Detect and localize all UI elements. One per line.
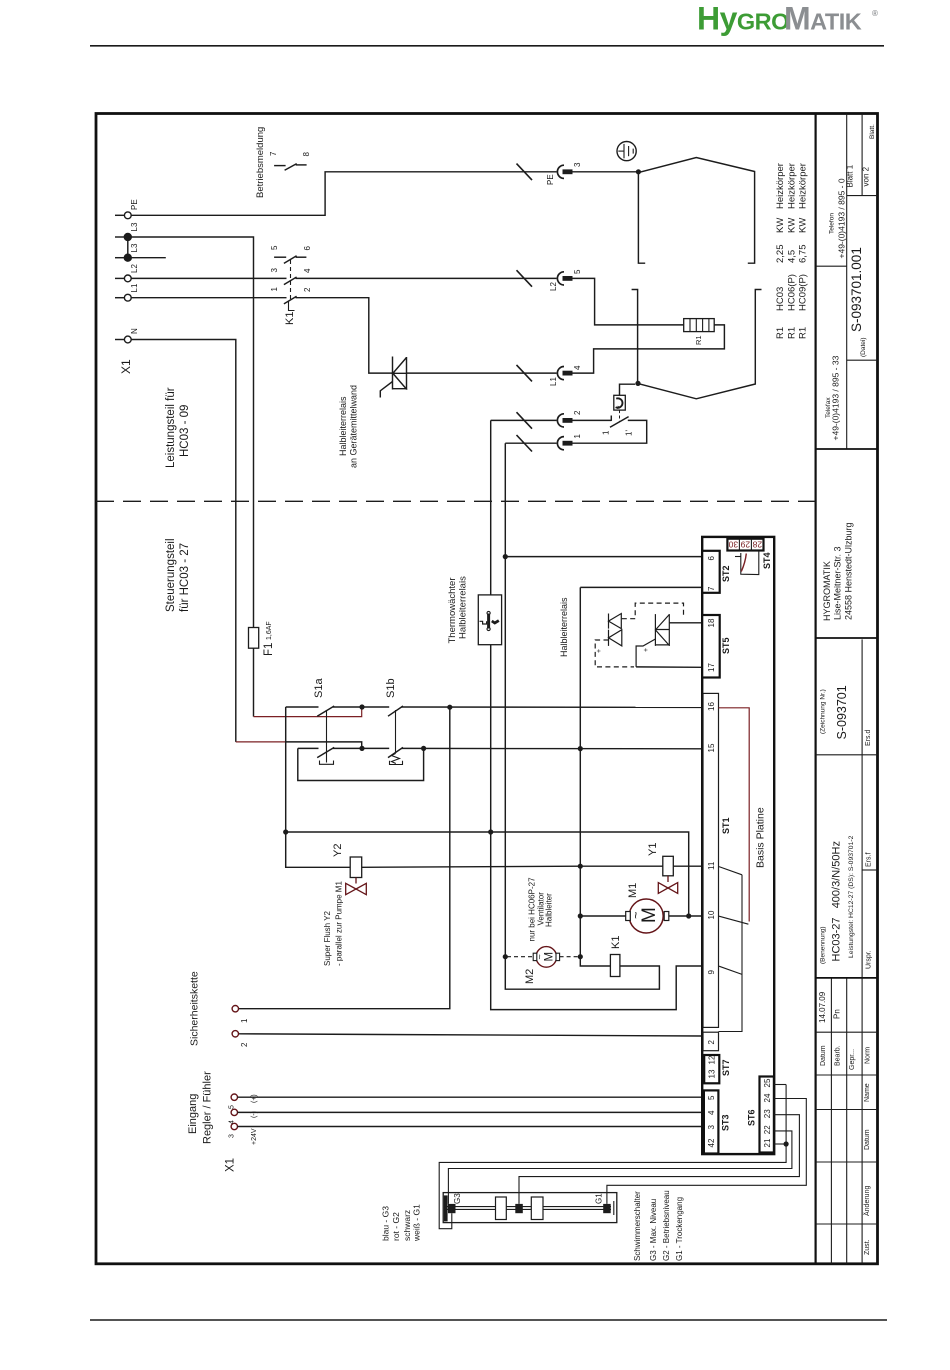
- magnet end bar: [444, 1195, 448, 1221]
- section separator dashed line: [96, 500, 816, 502]
- heating resistor R1: [684, 319, 715, 332]
- svg-text:13: 13: [708, 1069, 717, 1078]
- relay coil K1: [610, 955, 620, 977]
- float body 2: [531, 1197, 543, 1220]
- svg-text:(-): (-): [251, 1111, 258, 1118]
- row A wire: [286, 706, 319, 708]
- wire N red segment: [236, 741, 286, 743]
- terminal X1-PE: [115, 214, 125, 216]
- svg-text:1: 1: [573, 434, 582, 439]
- svg-text:3: 3: [707, 1125, 716, 1130]
- svg-text:Heizkörper: Heizkörper: [798, 163, 809, 209]
- svg-text:R1: R1: [694, 335, 703, 345]
- terminal X1-N: [115, 339, 125, 341]
- svg-text:3: 3: [229, 1134, 236, 1138]
- wire N down to control: [131, 340, 236, 742]
- svg-text:+: +: [596, 649, 603, 653]
- svg-text:KW: KW: [775, 218, 786, 233]
- svg-text:18: 18: [707, 618, 716, 627]
- svg-text:S-093701.001: S-093701.001: [849, 247, 864, 332]
- Thermowächter line: [490, 420, 492, 595]
- svg-text:8: 8: [302, 152, 311, 157]
- ST4 pulled plug: [735, 556, 741, 558]
- svg-text:R1: R1: [775, 327, 786, 339]
- Sicherheitskette wire 1: [239, 707, 450, 1009]
- switch S1a pole 1: [317, 706, 334, 716]
- bridge wire L3-L3: [127, 237, 129, 258]
- Eingang terminals: [231, 1094, 237, 1100]
- svg-text:von 2: von 2: [862, 166, 871, 186]
- svg-text:L1: L1: [130, 283, 139, 292]
- svg-text:ST7: ST7: [721, 1059, 731, 1076]
- float rod: [448, 1206, 612, 1208]
- S1b linkage with spring: [395, 710, 397, 754]
- contactor K1 pole 1/2: [284, 296, 297, 304]
- wire L1: [131, 297, 286, 299]
- svg-text:Halbleiterrelais: Halbleiterrelais: [458, 576, 469, 639]
- float wiring W1: [439, 1085, 786, 1229]
- node S1b out: [447, 705, 452, 710]
- S1a linkage: [326, 710, 328, 763]
- svg-text:5: 5: [707, 1095, 716, 1100]
- connector ST7: [704, 1055, 719, 1083]
- motor M1: [629, 899, 663, 933]
- svg-text:Leistungsteil für: Leistungsteil für: [165, 387, 177, 468]
- svg-text:S1b: S1b: [385, 678, 397, 698]
- PCB relay contact pin 10: [719, 916, 748, 924]
- svg-text:HC06(P): HC06(P): [787, 274, 798, 311]
- svg-text:Datum: Datum: [820, 1045, 827, 1066]
- svg-text:Thermowächter: Thermowächter: [447, 578, 458, 644]
- svg-text:(Zeichnung Nr.): (Zeichnung Nr.): [820, 689, 827, 734]
- svg-text:R1: R1: [798, 327, 809, 339]
- safety thermostat sensor: [614, 395, 626, 410]
- svg-text:F1: F1: [263, 643, 275, 656]
- svg-text:1: 1: [270, 287, 279, 292]
- svg-text:3: 3: [573, 162, 582, 167]
- S1a feed drop: [286, 707, 351, 867]
- contactor linkage: [290, 260, 292, 300]
- svg-text:L3: L3: [130, 222, 139, 231]
- plug L2: [557, 272, 564, 285]
- svg-text:Regler / Fühler: Regler / Fühler: [202, 1071, 214, 1144]
- svg-text:rot - G2: rot - G2: [391, 1212, 401, 1241]
- svg-text:G1: G1: [595, 1193, 604, 1204]
- title block row lines: [830, 978, 832, 1264]
- node: PE to cylinder: [636, 169, 641, 174]
- svg-text:KW: KW: [787, 218, 798, 233]
- terminal X1-L2: [115, 277, 125, 279]
- svg-text:HC03: HC03: [775, 287, 786, 311]
- connector ST5: [702, 615, 720, 678]
- svg-text:PE: PE: [546, 174, 555, 185]
- svg-text:6: 6: [303, 246, 312, 251]
- svg-text:14.07.09: 14.07.09: [818, 991, 827, 1023]
- svg-text:+49-(0)4193 / 895 - 0: +49-(0)4193 / 895 - 0: [837, 178, 847, 258]
- svg-text:an Gerätemittelwand: an Gerätemittelwand: [349, 385, 359, 468]
- svg-text:Norm: Norm: [865, 1047, 872, 1064]
- svg-text:7: 7: [707, 586, 716, 591]
- node ST2-6 branch: [503, 554, 508, 559]
- svg-text:weiß - G1: weiß - G1: [412, 1204, 422, 1242]
- svg-text:Name: Name: [864, 1083, 871, 1102]
- svg-text:HC03 - 09: HC03 - 09: [179, 405, 191, 457]
- wire to M1 side: [286, 832, 689, 914]
- svg-text:G3: G3: [453, 1193, 462, 1204]
- svg-text:L2: L2: [549, 282, 558, 291]
- svg-text:2: 2: [303, 287, 312, 292]
- SSR optocoupler symbol: [609, 614, 622, 646]
- svg-text:+: +: [643, 648, 650, 652]
- svg-text:4: 4: [229, 1120, 236, 1124]
- svg-text:M1: M1: [627, 883, 639, 898]
- svg-text:15: 15: [707, 743, 716, 752]
- reed G1: [603, 1204, 611, 1213]
- svg-text:HC03-27 400/3/N/50Hz: HC03-27 400/3/N/50Hz: [831, 841, 843, 961]
- svg-text:Steuerungsteil: Steuerungsteil: [165, 538, 177, 612]
- triac SSR in power line: [392, 357, 394, 390]
- plug PE: [557, 165, 564, 178]
- connector ST3: [704, 1090, 719, 1153]
- wire F1 output (red): [253, 648, 255, 716]
- svg-text:HC09(P): HC09(P): [798, 274, 809, 311]
- float body 1: [496, 1197, 507, 1220]
- svg-text:Sicherheitskette: Sicherheitskette: [189, 971, 201, 1046]
- svg-text:Blatt.: Blatt.: [869, 124, 876, 139]
- svg-text:G2 - Betriebsniveau: G2 - Betriebsniveau: [662, 1190, 671, 1261]
- svg-text:L1: L1: [549, 377, 558, 386]
- svg-text:K1: K1: [284, 312, 296, 325]
- svg-text:22: 22: [763, 1125, 772, 1134]
- svg-text:11: 11: [707, 861, 716, 870]
- disconnect slash L2: [517, 270, 533, 287]
- float wiring W4: [607, 1099, 806, 1204]
- svg-text:ST4: ST4: [762, 552, 772, 569]
- stub wire from L3 b: [131, 257, 166, 259]
- wire 1 from plug down to control: [505, 442, 556, 444]
- svg-text:Halbleiterrelais: Halbleiterrelais: [559, 597, 569, 657]
- terminal X1-L1: [115, 297, 125, 299]
- top rule: [90, 45, 884, 47]
- svg-text:+49-(0)4193 / 895 - 33: +49-(0)4193 / 895 - 33: [831, 355, 841, 440]
- svg-text:- parallel zur Pumpe M1: - parallel zur Pumpe M1: [335, 881, 344, 966]
- svg-text:PE: PE: [130, 199, 139, 210]
- svg-text:24: 24: [763, 1093, 772, 1102]
- disconnect slash L1: [517, 365, 533, 382]
- svg-text:Y1: Y1: [647, 843, 659, 856]
- svg-text:Bearb.: Bearb.: [835, 1045, 842, 1066]
- switch S1b pole 2: [388, 747, 403, 757]
- svg-text:N: N: [130, 328, 139, 334]
- svg-text:R1: R1: [787, 327, 798, 339]
- svg-text:Datum: Datum: [864, 1129, 871, 1150]
- svg-text:nur bei HC06P-27: nur bei HC06P-27: [528, 877, 537, 942]
- svg-text:Änderung: Änderung: [863, 1186, 871, 1216]
- svg-text:Super Flush Y2: Super Flush Y2: [323, 910, 332, 966]
- PCB relay contact pin 11: [719, 867, 742, 875]
- svg-text:2,25: 2,25: [775, 245, 786, 264]
- svg-text:Gepr...: Gepr...: [849, 1049, 856, 1070]
- float wiring W2: [448, 1131, 792, 1204]
- svg-text:4: 4: [707, 1110, 716, 1115]
- wire ST2 pin6: [505, 556, 702, 558]
- wire L2: [131, 277, 286, 279]
- svg-text:KW: KW: [798, 218, 809, 233]
- svg-text:(+): (+): [251, 1094, 258, 1103]
- svg-text:2: 2: [240, 1042, 249, 1047]
- row B wire N: [286, 742, 362, 748]
- title block outer left border: [814, 114, 816, 1264]
- solenoid Y2: [350, 857, 362, 878]
- svg-text:ST1: ST1: [721, 817, 731, 834]
- disconnect slash PE: [517, 164, 533, 181]
- svg-text:2: 2: [707, 1040, 716, 1045]
- svg-text:G3 - Max. Niveau: G3 - Max. Niveau: [649, 1199, 658, 1261]
- motor M2: [536, 947, 557, 968]
- title block column lines: [816, 1223, 878, 1225]
- svg-text:S-093701: S-093701: [835, 685, 849, 739]
- svg-text:4: 4: [573, 365, 582, 370]
- svg-text:Basis Platine: Basis Platine: [755, 807, 767, 868]
- svg-text:ST6: ST6: [747, 1109, 757, 1126]
- svg-text:5: 5: [270, 245, 279, 250]
- svg-text:Blatt 1: Blatt 1: [846, 164, 855, 187]
- svg-text:9: 9: [707, 970, 716, 975]
- svg-text:1': 1': [625, 430, 634, 436]
- svg-text:für HC03 - 27: für HC03 - 27: [179, 543, 191, 612]
- pin 2 box: [703, 1032, 719, 1051]
- N bus vertical: [580, 587, 610, 966]
- svg-text:1: 1: [602, 430, 611, 435]
- terminal X1-L3 a: [115, 236, 125, 238]
- svg-text:25: 25: [763, 1078, 772, 1087]
- svg-text:L3: L3: [130, 243, 139, 252]
- svg-text:ST2: ST2: [721, 565, 731, 582]
- svg-text:(Datei): (Datei): [860, 337, 867, 357]
- svg-text:4: 4: [303, 268, 312, 273]
- svg-text:30: 30: [728, 540, 738, 550]
- SSR output wires: [669, 622, 702, 624]
- svg-text:ST5: ST5: [721, 637, 731, 654]
- G1 end tick: [613, 1201, 615, 1215]
- svg-text:ST3: ST3: [721, 1114, 731, 1131]
- steam cylinder lower bracket: [632, 290, 638, 384]
- svg-text:M: M: [544, 952, 556, 962]
- Sicherheitskette wire 2: [239, 1034, 703, 1036]
- Thermowächter box: [478, 595, 501, 645]
- node N-bus/Y1: [578, 864, 583, 869]
- svg-text:M: M: [639, 907, 660, 923]
- svg-text:G1 - Trockengang: G1 - Trockengang: [675, 1197, 684, 1261]
- svg-text:6: 6: [707, 556, 716, 561]
- node: lower bracket junction: [635, 381, 640, 386]
- svg-text:7: 7: [269, 151, 278, 156]
- PCB internal red wire pin16: [719, 708, 750, 922]
- svg-text:(Benennung): (Benennung): [820, 926, 827, 964]
- svg-text:Eingang: Eingang: [187, 1094, 199, 1134]
- svg-text:X1: X1: [119, 359, 133, 374]
- Betriebsmeldung contact 7/8: [274, 165, 286, 167]
- float switch outer box: [443, 1193, 617, 1223]
- drawing frame: [96, 114, 878, 1264]
- svg-text:Urspr.: Urspr.: [866, 950, 873, 969]
- svg-text:10: 10: [707, 910, 716, 919]
- svg-text:schwarz: schwarz: [402, 1210, 412, 1241]
- svg-text:blau - G3: blau - G3: [381, 1206, 391, 1241]
- svg-text:5: 5: [573, 269, 582, 274]
- svg-text:Zust.: Zust.: [864, 1239, 871, 1255]
- svg-text:23: 23: [763, 1109, 772, 1118]
- node rowC/N-bus: [578, 746, 583, 751]
- PCB relay contact pin 9: [719, 966, 742, 974]
- connector ST6: [760, 1077, 774, 1153]
- Basis Platine board outline: [702, 537, 774, 1154]
- contactor K1 pole 3/4: [284, 277, 297, 285]
- solenoid Y1: [580, 865, 663, 867]
- svg-text:17: 17: [707, 663, 716, 672]
- row C wire: [298, 747, 319, 749]
- svg-text:42: 42: [707, 1138, 716, 1147]
- svg-text:3: 3: [270, 268, 279, 273]
- contactor K1 pole 5/6: [274, 256, 286, 258]
- steam cylinder upper bracket: [638, 158, 754, 264]
- SSR triac: [636, 614, 669, 667]
- svg-text:Y2: Y2: [332, 844, 344, 857]
- svg-text:2: 2: [573, 410, 582, 415]
- svg-text:Schwimmerschalter: Schwimmerschalter: [633, 1191, 642, 1261]
- node rowB/rowC: [359, 746, 364, 751]
- connector ST4: [727, 539, 763, 551]
- node F1/rowA: [359, 704, 364, 709]
- reed G2: [515, 1204, 523, 1213]
- svg-text:Ers.f: Ers.f: [866, 853, 873, 867]
- svg-text:X1: X1: [225, 1158, 237, 1172]
- terminal X1-L3 b: [115, 257, 125, 259]
- LOGO HygroMatik: [697, 1, 878, 37]
- wire 2 from plug to STB contact: [491, 419, 557, 421]
- svg-text:Halbleiter: Halbleiter: [545, 893, 554, 927]
- svg-text:21: 21: [763, 1138, 772, 1147]
- svg-text:Betriebsmeldung: Betriebsmeldung: [255, 127, 266, 198]
- svg-text:24558 Henstedt-Ulzburg: 24558 Henstedt-Ulzburg: [844, 522, 854, 620]
- wire ST2 pin7: [580, 586, 702, 588]
- rowC bypass loop: [298, 748, 424, 780]
- svg-text:16: 16: [707, 702, 716, 711]
- wire PE run: [131, 172, 556, 216]
- svg-text:1: 1: [240, 1018, 249, 1023]
- earth symbol: [617, 142, 636, 161]
- node rowC loop: [421, 746, 426, 751]
- svg-text:Telefon: Telefon: [829, 213, 836, 234]
- svg-text:29: 29: [740, 540, 750, 550]
- svg-text:1,6AF: 1,6AF: [266, 621, 273, 640]
- svg-text:12: 12: [708, 1055, 717, 1064]
- connector ST1: [703, 693, 719, 1027]
- svg-text:HYGROMATIK: HYGROMATIK: [822, 561, 832, 621]
- svg-text:Ers.d: Ers.d: [865, 730, 872, 746]
- switch S1b pole 1: [388, 706, 403, 716]
- svg-text:Heizkörper: Heizkörper: [775, 163, 786, 209]
- wire L3 to fuse: [131, 237, 253, 628]
- wire ST6 pin21: [774, 1143, 786, 1145]
- svg-text:K1: K1: [610, 936, 622, 949]
- plug L1(4): [557, 367, 564, 380]
- reed G3: [448, 1204, 456, 1213]
- bottom rule: [90, 1319, 887, 1321]
- PCB internal bus to pin2: [719, 875, 743, 1032]
- svg-text:Halbleiterrelais: Halbleiterrelais: [338, 396, 348, 456]
- svg-text:5: 5: [229, 1105, 236, 1109]
- STB contact 1-1': [610, 416, 612, 421]
- svg-text:+24V: +24V: [251, 1128, 258, 1145]
- svg-text:Leistungstel: HC12-27 (DS): S-: Leistungstel: HC12-27 (DS): S-093701-2: [848, 835, 855, 958]
- svg-text:4,5: 4,5: [787, 250, 798, 263]
- fuse F1: [249, 628, 259, 649]
- switch S1a pole 2: [317, 747, 334, 757]
- svg-text:Pn: Pn: [833, 1009, 842, 1019]
- svg-text:S1a: S1a: [313, 678, 325, 698]
- svg-text:L2: L2: [130, 264, 139, 273]
- svg-text:Lise-Meitner-Str. 3: Lise-Meitner-Str. 3: [833, 546, 843, 620]
- svg-text:M2: M2: [524, 969, 536, 984]
- svg-text:Heizkörper: Heizkörper: [787, 163, 798, 209]
- svg-text:6,75: 6,75: [798, 245, 809, 264]
- svg-text:28: 28: [752, 540, 762, 550]
- connector ST2: [702, 551, 720, 593]
- float wiring W3: [519, 1115, 799, 1204]
- node Y2 branch: [283, 829, 288, 834]
